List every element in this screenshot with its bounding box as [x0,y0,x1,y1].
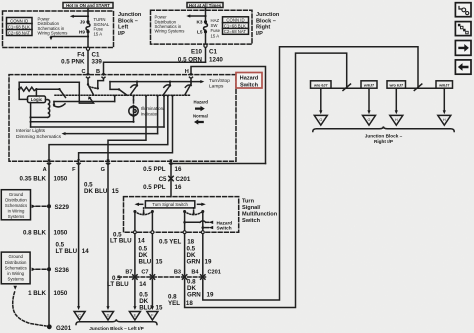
wire drop to triangle H1 [395,88,398,114]
label HAZ SW Fuse 15 A [211,18,221,38]
wire top feed inside switch [19,82,79,89]
resistor flasher [18,87,38,91]
label TURN SIGNAL Fuse 15 A [94,17,110,36]
pin B3 C201 [174,270,187,280]
brace junction block right [313,126,454,131]
header Hot In ON and START [63,3,113,9]
arrow down to wiring systems note left [49,35,89,40]
connector triangle G2 [363,115,376,125]
hazard switch link line 1 [183,220,232,225]
contact stub 2 [164,81,172,95]
connector triangle F [147,312,158,321]
connector triangle D [103,312,114,321]
contact pole B [97,79,104,90]
wire ORN distribution to H and turn signal feed [191,67,266,164]
splice S229 [32,204,70,211]
note Power Distribution Schematics left [38,16,68,35]
switch blade left [143,208,145,215]
wire label 0.5 YEL 18 B3 upper [159,239,195,246]
illumination indicator lamp [129,95,138,123]
note box ground distribution 1 [1,190,30,220]
switch blade right [193,208,195,215]
legend normal position arrow [193,114,208,125]
ground reference dashed arrow [13,286,46,326]
arrow to power distribution right [186,14,206,17]
turn signal multifunction switch dashed box [124,197,239,233]
wire C7 inside switch [151,212,153,233]
wire to interior lights dimming [62,95,159,135]
bus left jog contact [110,82,127,96]
wire label 0.5 DK BLU 15 C7 upper [139,246,163,266]
wire F4 to hazard switch [87,47,89,74]
pin H [189,73,192,78]
wire label 0.5 ORN 1240 [178,56,223,63]
brace junction block left [76,319,157,324]
wire C7 to C201 [151,234,153,275]
wire fuse feed right [205,8,207,21]
wire label 0.35 BLK 1050 [20,176,68,183]
flasher contact blade [53,89,66,107]
hazard switch link line 2 [202,226,232,231]
wire label 0.5 LT BLU 14 [56,241,90,255]
fuse HAZ SW 15A [204,20,208,44]
contact pole C [87,79,94,95]
turn signal switch label box [145,201,194,208]
wire B4 inside switch [202,212,204,233]
wire label 0.8 DK GRN 19 B4 lower [187,279,214,299]
toolbar button back arrow [455,60,471,74]
wire B7 below C201 [133,279,136,310]
pin A [43,159,51,173]
splice S236 [32,267,70,274]
connector C201 dashed row [118,276,206,278]
wire G DK BLU [106,162,109,310]
wire B feed from ORN line [104,62,206,74]
wire label 0.5 DK BLU 15 [84,181,119,195]
ground G201 [47,324,72,332]
lever arrow left [135,203,143,206]
wire label 0.5 PNK 339 [61,59,102,66]
bus to turn stop lamps [110,80,204,83]
rotor contact arc right [183,210,204,215]
logic module [19,89,45,102]
mechanical link dotted line [55,94,191,96]
junction block left I/P dashed box [3,11,114,48]
pin G [101,159,110,173]
pin B [102,73,105,78]
wire label 0.5 DK BLU 15 C7 lower [139,292,163,312]
wire label 0.5 PPL 16 lower [143,184,182,191]
pin at box bottom B4 [201,231,204,234]
toolbar button enlarge [455,22,471,36]
wire drop to triangle H2 [443,88,446,114]
rotor contact arc left [133,210,154,215]
wire PPL from hazard to C5 [170,162,172,197]
wire label 0.8 YEL 18 B3 lower [168,294,193,307]
wire to pin A [49,95,169,161]
junction block right I/P dashed box [151,10,253,44]
wire staircase to contact [79,82,93,103]
pin at box bottom B7 [133,231,136,234]
mechanical link C to B [89,87,96,89]
fuse TURN SIGNAL 15A [86,20,90,47]
option split DK GRN [396,84,444,91]
option label box w/o 6J7 [311,81,332,88]
wire label 0.5 DK GRN 19 B4 upper [187,246,212,266]
pin B4 C201 [191,270,205,280]
wire B3 inside switch [184,212,186,233]
connector triangle E [129,312,140,321]
wire h1 contact return [54,95,116,102]
pin B7 C201 [125,270,137,280]
header Hot at All Times [187,3,223,8]
pin C7 C201 [141,270,154,280]
contact stub 1 [131,81,139,95]
arrow to power distribution left [70,15,89,18]
wire fuse feed left [87,8,89,20]
connector triangle C [74,312,85,321]
label Turn/Stop Lamps [209,78,230,90]
connector triangle H2 [438,115,451,125]
connector C5 C201 [159,176,191,183]
wire label 0.8 BLK 1050 [23,230,68,237]
wire to pin G [108,95,147,161]
connector F4 C1 [77,47,100,58]
note Power Distribution Schematics right [155,15,185,34]
wire B4 to C201 [202,234,204,275]
connector triangle H1 [390,115,403,125]
wire to pin F [79,95,174,159]
label Junction Block - Left I/P [118,12,142,37]
connector triangle G1 [314,115,327,125]
wire h2 coil to lamp [31,121,134,123]
note box ground distribution 2 [1,252,30,284]
wire E10 down [205,44,207,62]
label Interior Lights Dimming Schematics [16,128,62,140]
wire B3 to C201 [184,234,186,275]
label Illumination Indicator [141,106,165,116]
wire PPL return loop [170,162,266,164]
option split YEL [321,84,369,91]
wire label 0.5 LT BLU 14 B7 upper [110,231,145,244]
CONN ID table left [7,18,33,36]
legend hazard position arrow [194,100,209,112]
pin C [86,73,89,78]
toolbar button next arrow [455,41,471,56]
label Turn Signal Multifunction Switch [242,198,278,224]
wire B4 DK GRN run to junction block right [203,47,418,300]
pin at box bottom C7 [151,231,154,234]
wire label 1 BLK 1050 [28,290,68,297]
connector E10 C1 [191,44,217,56]
pin at box bottom B3 [183,231,186,234]
lever arrow right [198,203,206,206]
pin F [72,159,80,173]
wire h3 coil to contact [30,95,166,127]
scan grain overlay [0,0,1,1]
toolbar button shrink [455,3,471,17]
wire resistor to blade node [36,88,60,90]
contact pole H [185,79,192,95]
hazard switch assembly dashed box [9,75,236,162]
wire B7 inside switch [134,212,136,233]
pin hazard feed to turn signal switch [169,159,172,164]
CONN ID table right [223,17,249,35]
wire B7 to C201 [134,234,136,275]
wire drop to triangle G2 [367,88,370,114]
wire label 0.5 PPL 16 upper [143,166,182,173]
label Junction Block - Right I/P [365,134,403,144]
wire label 0.5 LT BLU 14 B7 lower [107,275,147,288]
label Junction Block - Right I/P [256,12,280,37]
wire A BLK to ground [48,162,50,325]
option label box w/6J7 right [436,81,453,88]
wire F LT BLU [77,162,80,310]
wire drop to triangle G1 [319,88,322,114]
wire C7 below C201 [151,279,154,310]
hazard switch red title box [236,73,262,89]
flasher coil [29,100,49,127]
wire B3 YEL run to junction block right [185,53,347,307]
option label box w/6J7 [361,81,377,88]
option label box w/o 6J7 right [387,81,406,88]
